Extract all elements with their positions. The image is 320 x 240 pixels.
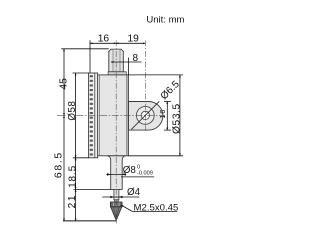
mounting lug: [128, 102, 163, 131]
bottom reference baseline: [63, 220, 117, 222]
horizontal centerline through lug hole: [57, 114, 66, 116]
dimension Ø4 (spindle): [102, 187, 140, 199]
dimension Ø8 0/-0.009 (stem): [106, 164, 154, 177]
vertical centerline (stem axis): [115, 40, 117, 223]
svg-text:18.5: 18.5: [68, 165, 79, 188]
body back inner line: [126, 75, 128, 156]
svg-text:Unit: mm: Unit: mm: [146, 14, 184, 25]
spindle (Ø4): [114, 189, 119, 199]
dimension 68.5: [53, 115, 64, 221]
dimension Ø58: [67, 73, 89, 158]
svg-text:-0.009: -0.009: [137, 171, 153, 177]
body (Ø58 housing): [98, 75, 129, 156]
dimension 18.5 (stem length): [68, 158, 111, 190]
dimension 19 (top): [116, 42, 145, 44]
svg-text:16: 16: [158, 109, 167, 119]
svg-text:16: 16: [98, 34, 110, 45]
lug hole vertical centerline: [144, 40, 146, 130]
svg-text:M2.5x0.45: M2.5x0.45: [134, 202, 179, 213]
dimension 16 (lug height): [158, 102, 171, 131]
lug hole Ø6.5: [141, 111, 149, 119]
bezel knurled ring: [89, 73, 98, 158]
svg-text:45: 45: [59, 78, 70, 90]
svg-text:Ø58: Ø58: [67, 101, 78, 121]
thread stub M2.5: [115, 200, 119, 202]
svg-text:Ø6.5: Ø6.5: [159, 79, 182, 102]
svg-text:8: 8: [133, 53, 139, 64]
contact point collar: [110, 202, 122, 207]
dimension Ø53.5 (back cover): [128, 75, 183, 156]
leader Ø6.5 (lug hole): [131, 79, 182, 130]
svg-text:Ø8: Ø8: [123, 165, 137, 176]
svg-text:21: 21: [67, 194, 78, 209]
lug hole boss: [136, 107, 154, 125]
cap (top crown): [109, 49, 124, 72]
body front inner line: [98, 75, 100, 156]
dimension 45: [59, 49, 70, 116]
contact point cone: [111, 207, 122, 221]
leader M2.5x0.45 (contact thread): [121, 202, 179, 213]
svg-text:Ø53.5: Ø53.5: [172, 103, 183, 134]
dimension 8 (cap): [111, 53, 142, 75]
cap neck: [108, 72, 126, 75]
svg-text:Ø4: Ø4: [127, 187, 141, 198]
dimension 21 (lower): [67, 189, 78, 221]
stem (Ø8): [107, 156, 126, 190]
svg-text:0: 0: [137, 164, 140, 170]
dimension 16 (top): [90, 40, 116, 72]
svg-text:68.5: 68.5: [53, 151, 64, 178]
extension line at cap top (left): [61, 48, 109, 50]
svg-text:19: 19: [128, 34, 140, 45]
